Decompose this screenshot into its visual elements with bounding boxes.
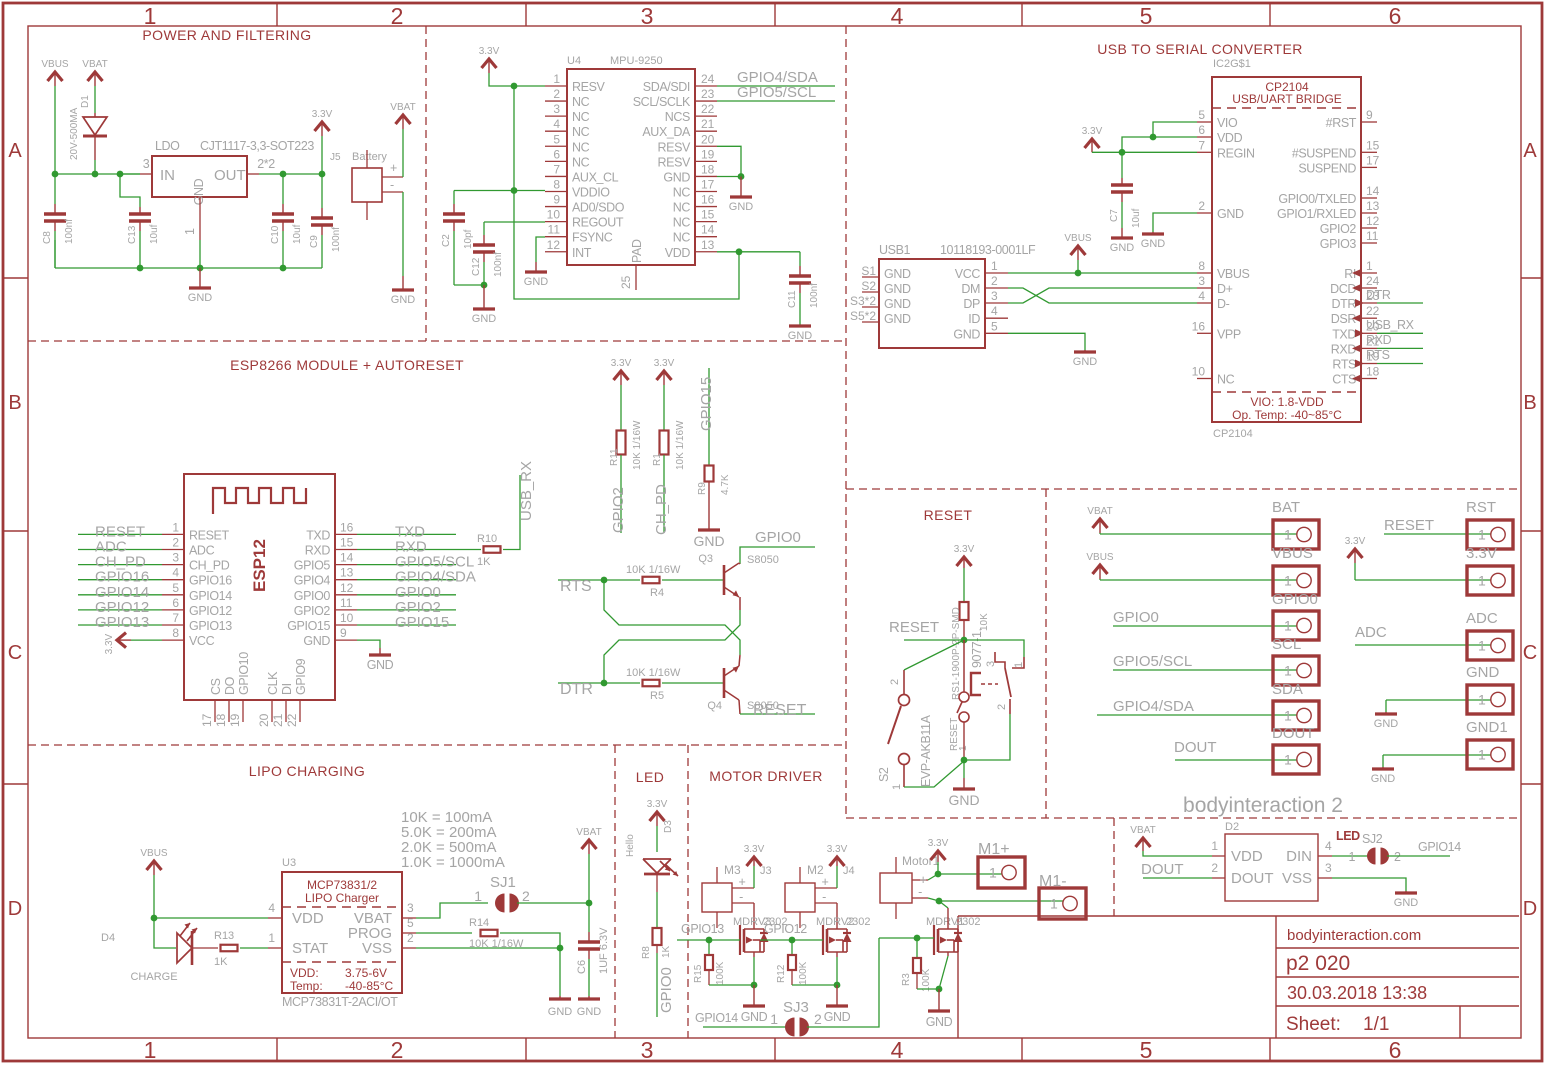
CP2104 pin 16 VPP <box>1197 332 1212 334</box>
Q3 collector lead <box>739 563 740 564</box>
ESP12 antenna <box>213 488 306 514</box>
svg-text:GPIO5: GPIO5 <box>294 559 331 573</box>
svg-text:C8: C8 <box>42 231 53 244</box>
svg-text:2: 2 <box>814 1011 822 1027</box>
svg-text:S5*2: S5*2 <box>850 309 876 323</box>
supply VBAT <box>88 72 103 81</box>
svg-text:CS: CS <box>209 678 223 695</box>
supply VBAT d2 <box>1136 838 1151 847</box>
section border esp bottom <box>28 744 846 746</box>
svg-text:4: 4 <box>891 3 904 29</box>
CP2104 pin 1 RI <box>1361 272 1377 274</box>
section border power|mpu vertical <box>425 26 427 341</box>
CP2104 pin 3 D+ <box>1197 287 1212 289</box>
supply 3.3V R1 <box>657 371 672 380</box>
svg-text:100K: 100K <box>715 961 726 985</box>
svg-text:13: 13 <box>340 566 354 580</box>
svg-text:CHARGE: CHARGE <box>130 971 177 983</box>
svg-text:2: 2 <box>391 3 404 29</box>
svg-text:5: 5 <box>172 581 179 595</box>
LED D3 Hello <box>643 858 671 860</box>
svg-text:NC: NC <box>673 185 691 199</box>
section border reset|headers vertical <box>1045 489 1047 818</box>
svg-text:SCL/SCLK: SCL/SCLK <box>633 95 691 109</box>
svg-text:3.3V: 3.3V <box>654 358 675 369</box>
svg-text:1K: 1K <box>661 945 672 958</box>
svg-text:RESV: RESV <box>658 155 692 169</box>
wire R15 to source <box>708 970 710 985</box>
section border led|motor vertical <box>687 745 689 1038</box>
svg-text:6: 6 <box>1389 1037 1402 1063</box>
node junction mpu 3.3V <box>511 83 518 90</box>
wire GPIO0 from Q3 collector <box>740 547 815 564</box>
resistor R9 4.7K <box>705 466 714 482</box>
svg-text:VSS: VSS <box>362 940 392 957</box>
wire ground rail <box>55 267 322 269</box>
wire R12 to source <box>791 970 793 985</box>
svg-text:-40-85°C: -40-85°C <box>345 979 393 993</box>
svg-text:10uf: 10uf <box>292 224 303 244</box>
node junction vss gnd <box>557 945 564 952</box>
svg-text:10: 10 <box>547 208 561 222</box>
svg-text:100K: 100K <box>798 961 809 985</box>
wire crossover rts-q4 <box>604 580 740 655</box>
svg-text:USB TO SERIAL CONVERTER: USB TO SERIAL CONVERTER <box>1097 41 1303 57</box>
ground header gnd1 <box>1382 755 1384 767</box>
ESP12 pin 8 VCC <box>162 639 184 641</box>
svg-text:p2 020: p2 020 <box>1286 952 1350 975</box>
svg-text:ADC: ADC <box>1355 624 1387 641</box>
svg-text:NC: NC <box>673 216 691 230</box>
svg-text:R3: R3 <box>901 973 912 986</box>
wire regin <box>1092 151 1197 153</box>
ESP12 pin 4 GPIO16 <box>162 579 184 581</box>
wire 3.3V to motor + <box>836 866 838 888</box>
resistor R4 10K 1/16W <box>643 577 660 584</box>
wire esp gnd pin9 <box>357 640 380 648</box>
U3 pin 1 STAT <box>268 947 282 949</box>
wire vdd loop to vddio <box>514 86 739 299</box>
svg-text:9: 9 <box>1366 108 1373 122</box>
svg-text:GPIO0: GPIO0 <box>294 589 331 603</box>
wire D+ crossover <box>1008 288 1197 303</box>
svg-text:LIPO Charger: LIPO Charger <box>305 891 379 905</box>
wire C12 to REGOUT pin10 <box>484 221 545 223</box>
svg-text:3: 3 <box>1198 274 1205 288</box>
ground R9 <box>708 528 710 530</box>
svg-text:R10: R10 <box>477 533 497 545</box>
wire switch pin2 down <box>964 714 1010 760</box>
wire GPIO5/SCL to pad <box>1113 669 1297 671</box>
svg-text:RXD: RXD <box>1331 342 1357 356</box>
svg-text:+: + <box>822 875 829 889</box>
svg-text:NC: NC <box>572 140 590 154</box>
svg-text:VSS: VSS <box>1282 870 1312 887</box>
svg-text:USB1: USB1 <box>879 243 911 257</box>
svg-text:VDD: VDD <box>1231 848 1263 865</box>
wire 3.3V to R11 <box>620 385 622 430</box>
svg-text:LED: LED <box>1336 829 1360 843</box>
svg-text:10K 1/16W: 10K 1/16W <box>626 667 681 679</box>
supply VBAT lipo <box>582 840 597 849</box>
wire GPIO15 to R9 <box>708 368 710 466</box>
svg-text:3.3V: 3.3V <box>104 633 115 654</box>
ground MDRV3 <box>753 985 755 1006</box>
svg-text:1: 1 <box>553 72 560 86</box>
supply VBAT battery <box>396 115 411 124</box>
D2 pin 3 VSS <box>1318 877 1332 879</box>
svg-text:CJT1117-3,3-SOT223: CJT1117-3,3-SOT223 <box>200 139 314 153</box>
wire 3.3V to motor + <box>753 866 755 888</box>
svg-text:D4: D4 <box>101 932 115 944</box>
svg-text:GPIO4/SDA: GPIO4/SDA <box>1113 698 1194 715</box>
switch 9077 pin2 lead <box>1009 699 1011 714</box>
svg-text:GPIO15: GPIO15 <box>395 614 449 631</box>
wire VBAT to D1 <box>94 88 96 113</box>
svg-text:+: + <box>739 875 746 889</box>
svg-text:U3: U3 <box>282 857 296 869</box>
svg-text:3: 3 <box>991 289 998 303</box>
svg-text:1: 1 <box>989 865 997 881</box>
svg-text:U4: U4 <box>567 55 581 67</box>
section solid divider bottom right <box>958 915 1519 917</box>
svg-text:RXD: RXD <box>1366 333 1392 347</box>
svg-text:3.3V: 3.3V <box>611 358 632 369</box>
svg-text:7: 7 <box>1198 138 1205 152</box>
wire GND1 pad <box>1383 754 1491 756</box>
svg-text:CTS: CTS <box>1332 373 1356 387</box>
svg-text:14: 14 <box>340 551 354 565</box>
resistor R8 1K <box>653 928 662 945</box>
svg-text:D2: D2 <box>1225 821 1239 833</box>
svg-text:A: A <box>8 140 22 162</box>
svg-text:C13: C13 <box>127 225 138 244</box>
svg-text:D-: D- <box>1217 297 1230 311</box>
svg-text:TXD: TXD <box>306 528 330 542</box>
wire 3.3V to pin1 <box>489 75 545 86</box>
CP2104 pin 2 GND <box>1197 212 1212 214</box>
wire pin20 RESV to gnd <box>717 146 741 176</box>
wire DOUT to D2 <box>1143 877 1212 879</box>
svg-text:15: 15 <box>701 208 715 222</box>
svg-text:FSYNC: FSYNC <box>572 231 613 245</box>
svg-text:BAT: BAT <box>1272 499 1300 516</box>
section border power/mpu bottom <box>28 340 846 342</box>
svg-text:#RST: #RST <box>1326 116 1357 130</box>
svg-text:DOUT: DOUT <box>1272 725 1315 742</box>
wire RTS out <box>1377 363 1423 365</box>
svg-text:DTR: DTR <box>1366 288 1391 302</box>
resistor R1 10K 1/16W <box>660 431 669 455</box>
wire C2 bottom <box>454 284 484 286</box>
svg-text:DM: DM <box>961 282 980 296</box>
svg-text:15: 15 <box>340 536 354 550</box>
U4 pin 11 FSYNC <box>545 236 567 238</box>
svg-text:LDO: LDO <box>155 139 180 153</box>
wire S2 pin1 to gnd <box>904 761 964 787</box>
wire vdd row <box>1122 137 1197 152</box>
CP2104 pin 5 VIO <box>1197 121 1212 123</box>
wire R1 to CH_PD <box>663 455 665 533</box>
wire ADC to pad <box>1355 644 1491 646</box>
svg-text:#SUSPEND: #SUSPEND <box>1292 146 1357 160</box>
svg-text:18: 18 <box>214 713 228 727</box>
capacitor C6 1UF 6.3V <box>588 903 590 928</box>
svg-text:16: 16 <box>340 520 354 534</box>
wire main rail <box>55 173 140 175</box>
resistor R11 10K 1/16W <box>617 431 626 455</box>
wire DTR <box>558 682 640 684</box>
svg-text:GPIO5/SCL: GPIO5/SCL <box>1113 653 1192 670</box>
node junction gnd rail LDO <box>197 265 204 272</box>
node junction vbus <box>1075 270 1082 277</box>
svg-text:-: - <box>390 178 394 192</box>
svg-text:1: 1 <box>1348 850 1355 864</box>
svg-text:18: 18 <box>1366 365 1380 379</box>
U4 pin 20 RESV <box>695 145 717 147</box>
svg-text:D1: D1 <box>80 95 91 108</box>
svg-text:NC: NC <box>572 125 590 139</box>
node junction vdd/vio <box>1150 134 1157 141</box>
wire motor - to mosfet drain <box>836 903 838 929</box>
ESP12 pin 3 CH_PD <box>162 564 184 566</box>
svg-text:MPU-9250: MPU-9250 <box>610 55 663 67</box>
supply 3.3V header <box>1348 549 1363 558</box>
svg-text:OUT: OUT <box>214 167 246 184</box>
svg-text:1: 1 <box>268 931 275 945</box>
switch S2 EVP-AKB11A <box>903 670 905 694</box>
pushbutton actuator <box>971 673 981 695</box>
svg-text:C9: C9 <box>309 235 320 248</box>
svg-text:3: 3 <box>407 901 414 915</box>
R9 lead to gnd <box>708 482 710 529</box>
svg-text:3.3V: 3.3V <box>1082 126 1103 137</box>
svg-text:GPIO13: GPIO13 <box>95 614 149 631</box>
node junction gate R3 <box>914 935 921 942</box>
svg-text:1: 1 <box>1211 839 1218 853</box>
svg-text:1K: 1K <box>477 556 491 568</box>
svg-text:ADC: ADC <box>189 544 215 558</box>
node junction DTR <box>601 680 608 687</box>
svg-text:B: B <box>1523 392 1536 414</box>
svg-text:GPIO13: GPIO13 <box>189 619 232 633</box>
svg-text:IN: IN <box>160 167 175 184</box>
svg-text:DO: DO <box>223 676 237 695</box>
svg-text:13: 13 <box>701 238 715 252</box>
wire D3 to R8 <box>656 874 658 892</box>
ground C6 <box>588 996 590 999</box>
svg-text:DP: DP <box>963 297 980 311</box>
svg-text:R9: R9 <box>697 482 708 495</box>
svg-text:RS1-1900P-2P-SMD: RS1-1900P-2P-SMD <box>951 607 962 700</box>
svg-text:RESET: RESET <box>753 702 807 719</box>
svg-text:10: 10 <box>1192 365 1206 379</box>
node junction gnd rail C13 <box>137 265 144 272</box>
svg-text:GPIO2: GPIO2 <box>1320 222 1357 236</box>
node junction mpu gnd <box>738 173 745 180</box>
supply VBAT header <box>1093 519 1108 528</box>
svg-text:30.03.2018 13:38: 30.03.2018 13:38 <box>1287 983 1427 1003</box>
node junction C10 <box>280 171 287 178</box>
resistor R15 100K <box>708 940 710 955</box>
node junction gate R12 <box>789 937 796 944</box>
ESP12 pin 10 GPIO15 <box>335 624 357 626</box>
CP2104 pin 17 SUSPEND <box>1361 166 1377 168</box>
svg-text:10K 1/16W: 10K 1/16W <box>675 420 686 470</box>
svg-text:11: 11 <box>340 596 353 610</box>
svg-text:NC: NC <box>673 201 691 215</box>
ESP12 pin 20 CLK <box>271 700 273 722</box>
svg-text:VDDIO: VDDIO <box>572 185 610 199</box>
svg-text:GND: GND <box>788 330 813 342</box>
svg-text:11: 11 <box>548 223 561 237</box>
svg-text:bodyinteraction.com: bodyinteraction.com <box>1287 927 1421 944</box>
svg-text:GND: GND <box>729 201 754 213</box>
USB1 pin 3 DP <box>985 302 1008 304</box>
svg-text:2: 2 <box>1198 199 1205 213</box>
svg-text:S2: S2 <box>861 279 876 293</box>
ground mpu pin18 <box>740 177 742 198</box>
svg-text:16: 16 <box>1192 319 1206 333</box>
USB1 pin 5 GND <box>985 332 1008 334</box>
svg-text:GND: GND <box>1217 207 1244 221</box>
wire SJ1 to VBAT net <box>517 902 589 904</box>
wire VBUS to pad <box>1100 579 1297 581</box>
svg-text:GPIO9: GPIO9 <box>294 658 308 695</box>
svg-text:1.0K = 1000mA: 1.0K = 1000mA <box>401 854 505 871</box>
ground D2 <box>1405 891 1407 893</box>
node junction C13 branch <box>117 171 124 178</box>
svg-text:2: 2 <box>991 274 998 288</box>
U3 pin 3 VBAT <box>402 917 416 919</box>
wire CH_PD left <box>78 564 162 566</box>
svg-text:GPIO1/RXLED: GPIO1/RXLED <box>1277 207 1356 221</box>
capacitor C13 <box>139 207 141 214</box>
U4 pin 10 REGOUT <box>545 221 567 223</box>
wire D4 to R13 <box>192 947 218 949</box>
svg-text:24: 24 <box>701 72 715 86</box>
wire rail to LDO IN <box>120 173 140 175</box>
svg-text:10K: 10K <box>979 613 990 631</box>
wire GPIO13 left <box>78 624 162 626</box>
svg-text:GND: GND <box>192 178 206 205</box>
wire GPIO4/SDA right <box>357 579 456 581</box>
svg-text:LIPO CHARGING: LIPO CHARGING <box>249 763 365 779</box>
ESP12 pin 5 GPIO14 <box>162 594 184 596</box>
wire vbus to U3 VDD <box>154 917 268 919</box>
svg-text:MOTOR DRIVER: MOTOR DRIVER <box>709 768 822 784</box>
ESP12 pin 21 DI <box>285 700 287 722</box>
svg-text:100nf: 100nf <box>809 283 820 308</box>
svg-text:4: 4 <box>553 117 560 131</box>
svg-text:3.3V: 3.3V <box>312 109 333 120</box>
svg-text:RESET: RESET <box>889 619 939 636</box>
node junction reset gnd <box>961 757 968 764</box>
resistor R10 1K <box>484 546 501 553</box>
svg-text:RESET: RESET <box>1384 517 1434 534</box>
svg-text:GND1: GND1 <box>1466 719 1508 736</box>
svg-text:-: - <box>822 890 826 904</box>
svg-text:10: 10 <box>340 611 354 625</box>
IC CP2104 box <box>1212 77 1361 422</box>
svg-text:GND: GND <box>884 312 911 326</box>
svg-text:USB_RX: USB_RX <box>1366 318 1415 332</box>
wire SJ2 to GPIO14 <box>1387 855 1450 857</box>
svg-text:J3: J3 <box>760 865 772 877</box>
wire SJ3 to gate riser <box>807 938 879 1027</box>
supply 3.3V J4 <box>830 857 845 866</box>
ground battery <box>402 276 404 290</box>
wire resistor to reset node <box>963 620 965 640</box>
svg-text:3.3V: 3.3V <box>479 46 500 57</box>
svg-text:GND: GND <box>948 792 979 808</box>
diode D1 <box>83 117 107 135</box>
svg-text:VIO: VIO <box>1217 116 1238 130</box>
wire VSS to gnd <box>1332 878 1406 891</box>
svg-text:GND: GND <box>391 294 416 306</box>
CP2104 pin 10 NC <box>1197 378 1212 380</box>
svg-text:TXD: TXD <box>1332 327 1356 341</box>
section border lipo|led vertical <box>614 745 616 1038</box>
svg-text:VDD: VDD <box>665 246 691 260</box>
wire D1 to rail <box>94 160 96 174</box>
svg-text:GPIO5/SCL: GPIO5/SCL <box>737 84 816 101</box>
svg-text:10118193-0001LF: 10118193-0001LF <box>940 243 1036 257</box>
wire pin18 GND <box>717 176 741 178</box>
svg-text:-: - <box>739 890 743 904</box>
wire R5 to Q4 base <box>662 682 723 684</box>
svg-text:C10: C10 <box>270 225 281 244</box>
svg-text:4: 4 <box>891 1037 904 1063</box>
svg-text:C: C <box>8 642 22 664</box>
ground MDRV1 <box>938 989 940 1011</box>
switch 9077 pin1 lead <box>1012 657 1024 668</box>
svg-text:4: 4 <box>991 304 998 318</box>
CP2104 pin 4 D- <box>1197 302 1212 304</box>
svg-text:CH_PD: CH_PD <box>189 559 230 573</box>
svg-text:S8050: S8050 <box>747 554 779 566</box>
svg-text:INT: INT <box>572 246 592 260</box>
svg-text:MCP73831/2: MCP73831/2 <box>307 878 377 892</box>
svg-text:SJ1: SJ1 <box>490 874 516 891</box>
svg-text:VIO: 1.8-VDD: VIO: 1.8-VDD <box>1250 395 1324 409</box>
wire C13 branch <box>120 174 140 207</box>
svg-text:3.3V: 3.3V <box>744 844 765 855</box>
svg-text:NC: NC <box>572 155 590 169</box>
svg-text:1: 1 <box>1284 618 1292 634</box>
USB1 shield pin S2 <box>862 291 879 293</box>
node junction reset <box>961 637 968 644</box>
svg-text:S3*2: S3*2 <box>850 294 876 308</box>
svg-text:14: 14 <box>701 223 715 237</box>
wire GPIO4/SDA to pad <box>1097 714 1297 716</box>
svg-text:DOUT: DOUT <box>1174 739 1217 756</box>
capacitor C9 <box>321 174 323 208</box>
svg-text:A: A <box>1523 140 1537 162</box>
svg-text:Hello: Hello <box>625 834 636 857</box>
wire RESET to RST pad <box>1384 533 1491 535</box>
svg-text:GND: GND <box>472 313 497 325</box>
CP2104 pin 24 DCD <box>1361 287 1377 289</box>
svg-text:GPIO0/TXLED: GPIO0/TXLED <box>1278 192 1356 206</box>
supply 3.3V cp2104 <box>1085 139 1100 148</box>
wire source down <box>753 952 755 957</box>
pushbutton contact bottom <box>959 712 969 722</box>
svg-text:GPIO14: GPIO14 <box>695 1011 738 1025</box>
svg-text:2302: 2302 <box>956 916 980 928</box>
USB1 pin 1 VCC <box>985 272 1008 274</box>
svg-text:VBAT: VBAT <box>390 102 415 113</box>
